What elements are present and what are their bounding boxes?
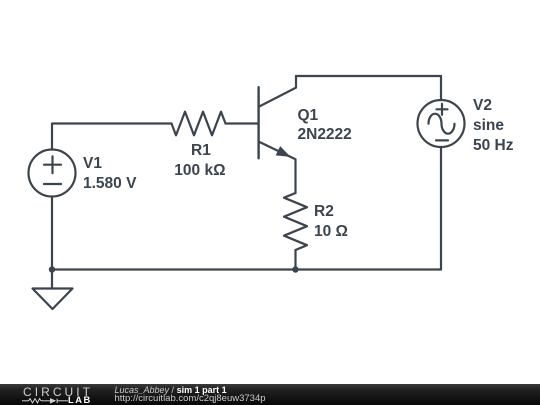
resistor R1 (172, 112, 226, 136)
wire V2 bottom (440, 147, 442, 270)
designator label R2 (314, 204, 334, 220)
resistor R2 (284, 193, 307, 250)
wire bottom rail (52, 268, 441, 270)
value label V1 1.580 V (83, 176, 136, 192)
ground (33, 289, 73, 310)
logo CircuitLab (23, 385, 93, 399)
footer bar (0, 384, 540, 405)
node junction dot right (292, 266, 298, 272)
value label V2 sine (473, 118, 504, 134)
node junction dot left (49, 266, 55, 272)
designator label V2 (473, 98, 492, 114)
wire R1 to Q1 base (226, 122, 258, 124)
value label Q1 2N2222 (298, 127, 352, 143)
wire base: V1 top to R1 (52, 124, 172, 150)
wire collector top (296, 75, 441, 77)
footer text (115, 384, 227, 394)
source V1 (29, 150, 76, 197)
wire ground stem (51, 270, 53, 289)
transistor Q1 (259, 76, 296, 193)
value label V2 50 Hz (473, 138, 514, 154)
designator label V1 (83, 156, 102, 172)
wire V2 top (440, 76, 442, 100)
value label R1 100 kOhm (174, 163, 225, 179)
designator label R1 (191, 143, 211, 159)
wire R2 bottom (294, 250, 296, 270)
designator label Q1 (298, 108, 319, 124)
value label R2 10 Ohm (314, 224, 348, 240)
wire V1 bottom (51, 197, 53, 270)
source V2 (418, 100, 465, 147)
